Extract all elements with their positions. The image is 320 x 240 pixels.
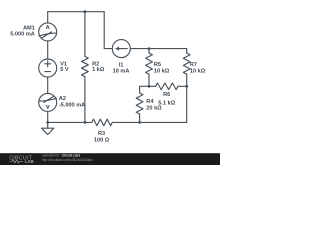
svg-text:http://circuitlab.com/c3624a42: http://circuitlab.com/c3624a4253abc — [42, 158, 93, 162]
wire R4 top lead — [140, 86, 149, 93]
node junction R7/R6/right rail — [185, 85, 188, 88]
label R4 value 20 kΩ — [146, 105, 162, 111]
label R2 value 1 kΩ — [92, 67, 105, 73]
label R3 — [98, 131, 105, 137]
footer attribution line 2 — [42, 158, 93, 162]
label AM1 value 5.000 mA — [10, 31, 35, 37]
wire right rail up — [186, 86, 188, 122]
wire I1 to right rail — [130, 48, 186, 50]
ground — [42, 122, 54, 134]
node junction R4 bottom rail — [138, 121, 141, 124]
node junction R2 bottom rail — [84, 121, 87, 124]
wire R7 top lead — [186, 49, 188, 53]
footer bar — [0, 153, 220, 165]
label R6 — [163, 92, 170, 98]
label R5 value 10 kΩ — [154, 68, 170, 74]
footer logo CIRCUIT LAB — [9, 155, 33, 164]
resistor R7 — [183, 53, 190, 74]
svg-text:A2: A2 — [59, 96, 66, 102]
wire AM1 to V1 — [47, 41, 49, 59]
svg-text:A: A — [46, 25, 50, 31]
svg-text:10 kΩ: 10 kΩ — [190, 68, 206, 74]
wire R4 bottom lead — [139, 114, 141, 122]
svg-text:-5.000 mA: -5.000 mA — [59, 102, 85, 108]
node junction top rail R2 — [84, 10, 87, 13]
svg-text:10 mA: 10 mA — [113, 68, 130, 74]
svg-text:R4: R4 — [146, 99, 154, 105]
wire R2 top lead — [84, 12, 86, 57]
wire R6 left lead — [149, 85, 156, 87]
svg-text:A: A — [46, 103, 50, 109]
wire R6 right lead — [178, 85, 187, 87]
node junction A2 / ground / bottom rail — [46, 121, 49, 124]
label R7 value 10 kΩ — [190, 68, 206, 74]
current source I1 — [112, 40, 130, 58]
resistor R2 — [82, 56, 89, 76]
wire A2 to ground node — [47, 111, 49, 122]
resistor R3 — [92, 119, 113, 126]
svg-text:R3: R3 — [98, 131, 105, 137]
svg-text:1 kΩ: 1 kΩ — [92, 67, 105, 73]
wire V1 to A2 — [47, 77, 49, 93]
label V1 — [60, 62, 67, 68]
label R4 — [146, 99, 154, 105]
wire bottom rail left — [48, 121, 92, 123]
ammeter A2 (rotated 180) — [39, 93, 57, 111]
label I1 — [119, 63, 124, 69]
svg-text:R5: R5 — [154, 62, 161, 68]
label A2 — [59, 96, 66, 102]
label R3 value 100 Ω — [94, 138, 110, 144]
svg-text:5.000 mA: 5.000 mA — [10, 31, 35, 37]
wire R5 top lead — [148, 49, 150, 53]
footer attribution line 1 — [42, 154, 81, 158]
svg-text:10 kΩ: 10 kΩ — [154, 68, 170, 74]
svg-text:R6: R6 — [163, 92, 170, 98]
node junction R5 top — [148, 47, 151, 50]
label R2 — [92, 62, 99, 68]
wire R2 bottom lead — [84, 77, 86, 123]
svg-text:LAB: LAB — [25, 159, 34, 164]
wire R7 bottom lead — [186, 74, 188, 86]
label A2 value -5.000 mA — [59, 102, 85, 108]
wire R5 bottom lead — [148, 74, 150, 86]
label R5 — [154, 62, 161, 68]
voltage source V1 — [39, 59, 57, 77]
ammeter AM1 — [39, 23, 57, 41]
resistor R4 — [136, 93, 143, 114]
svg-text:5 V: 5 V — [60, 67, 69, 73]
svg-text:AM1: AM1 — [23, 25, 35, 31]
label I1 value 10 mA — [113, 68, 130, 74]
wire bottom rail right — [112, 121, 186, 123]
wire corner down to I1 — [104, 12, 112, 49]
wire AM1 top stem — [47, 12, 49, 23]
svg-text:20 kΩ: 20 kΩ — [146, 105, 162, 111]
svg-text:100 Ω: 100 Ω — [94, 138, 110, 144]
svg-text:R7: R7 — [190, 62, 197, 68]
label R6 value 5.1 kΩ — [158, 100, 175, 106]
resistor R6 — [156, 83, 178, 90]
label AM1 — [23, 25, 35, 31]
wire top rail — [48, 11, 104, 13]
resistor R5 — [146, 53, 153, 74]
label R7 — [190, 62, 197, 68]
node junction R5/R6/R4 — [148, 85, 151, 88]
label V1 value 5 V — [60, 67, 69, 73]
